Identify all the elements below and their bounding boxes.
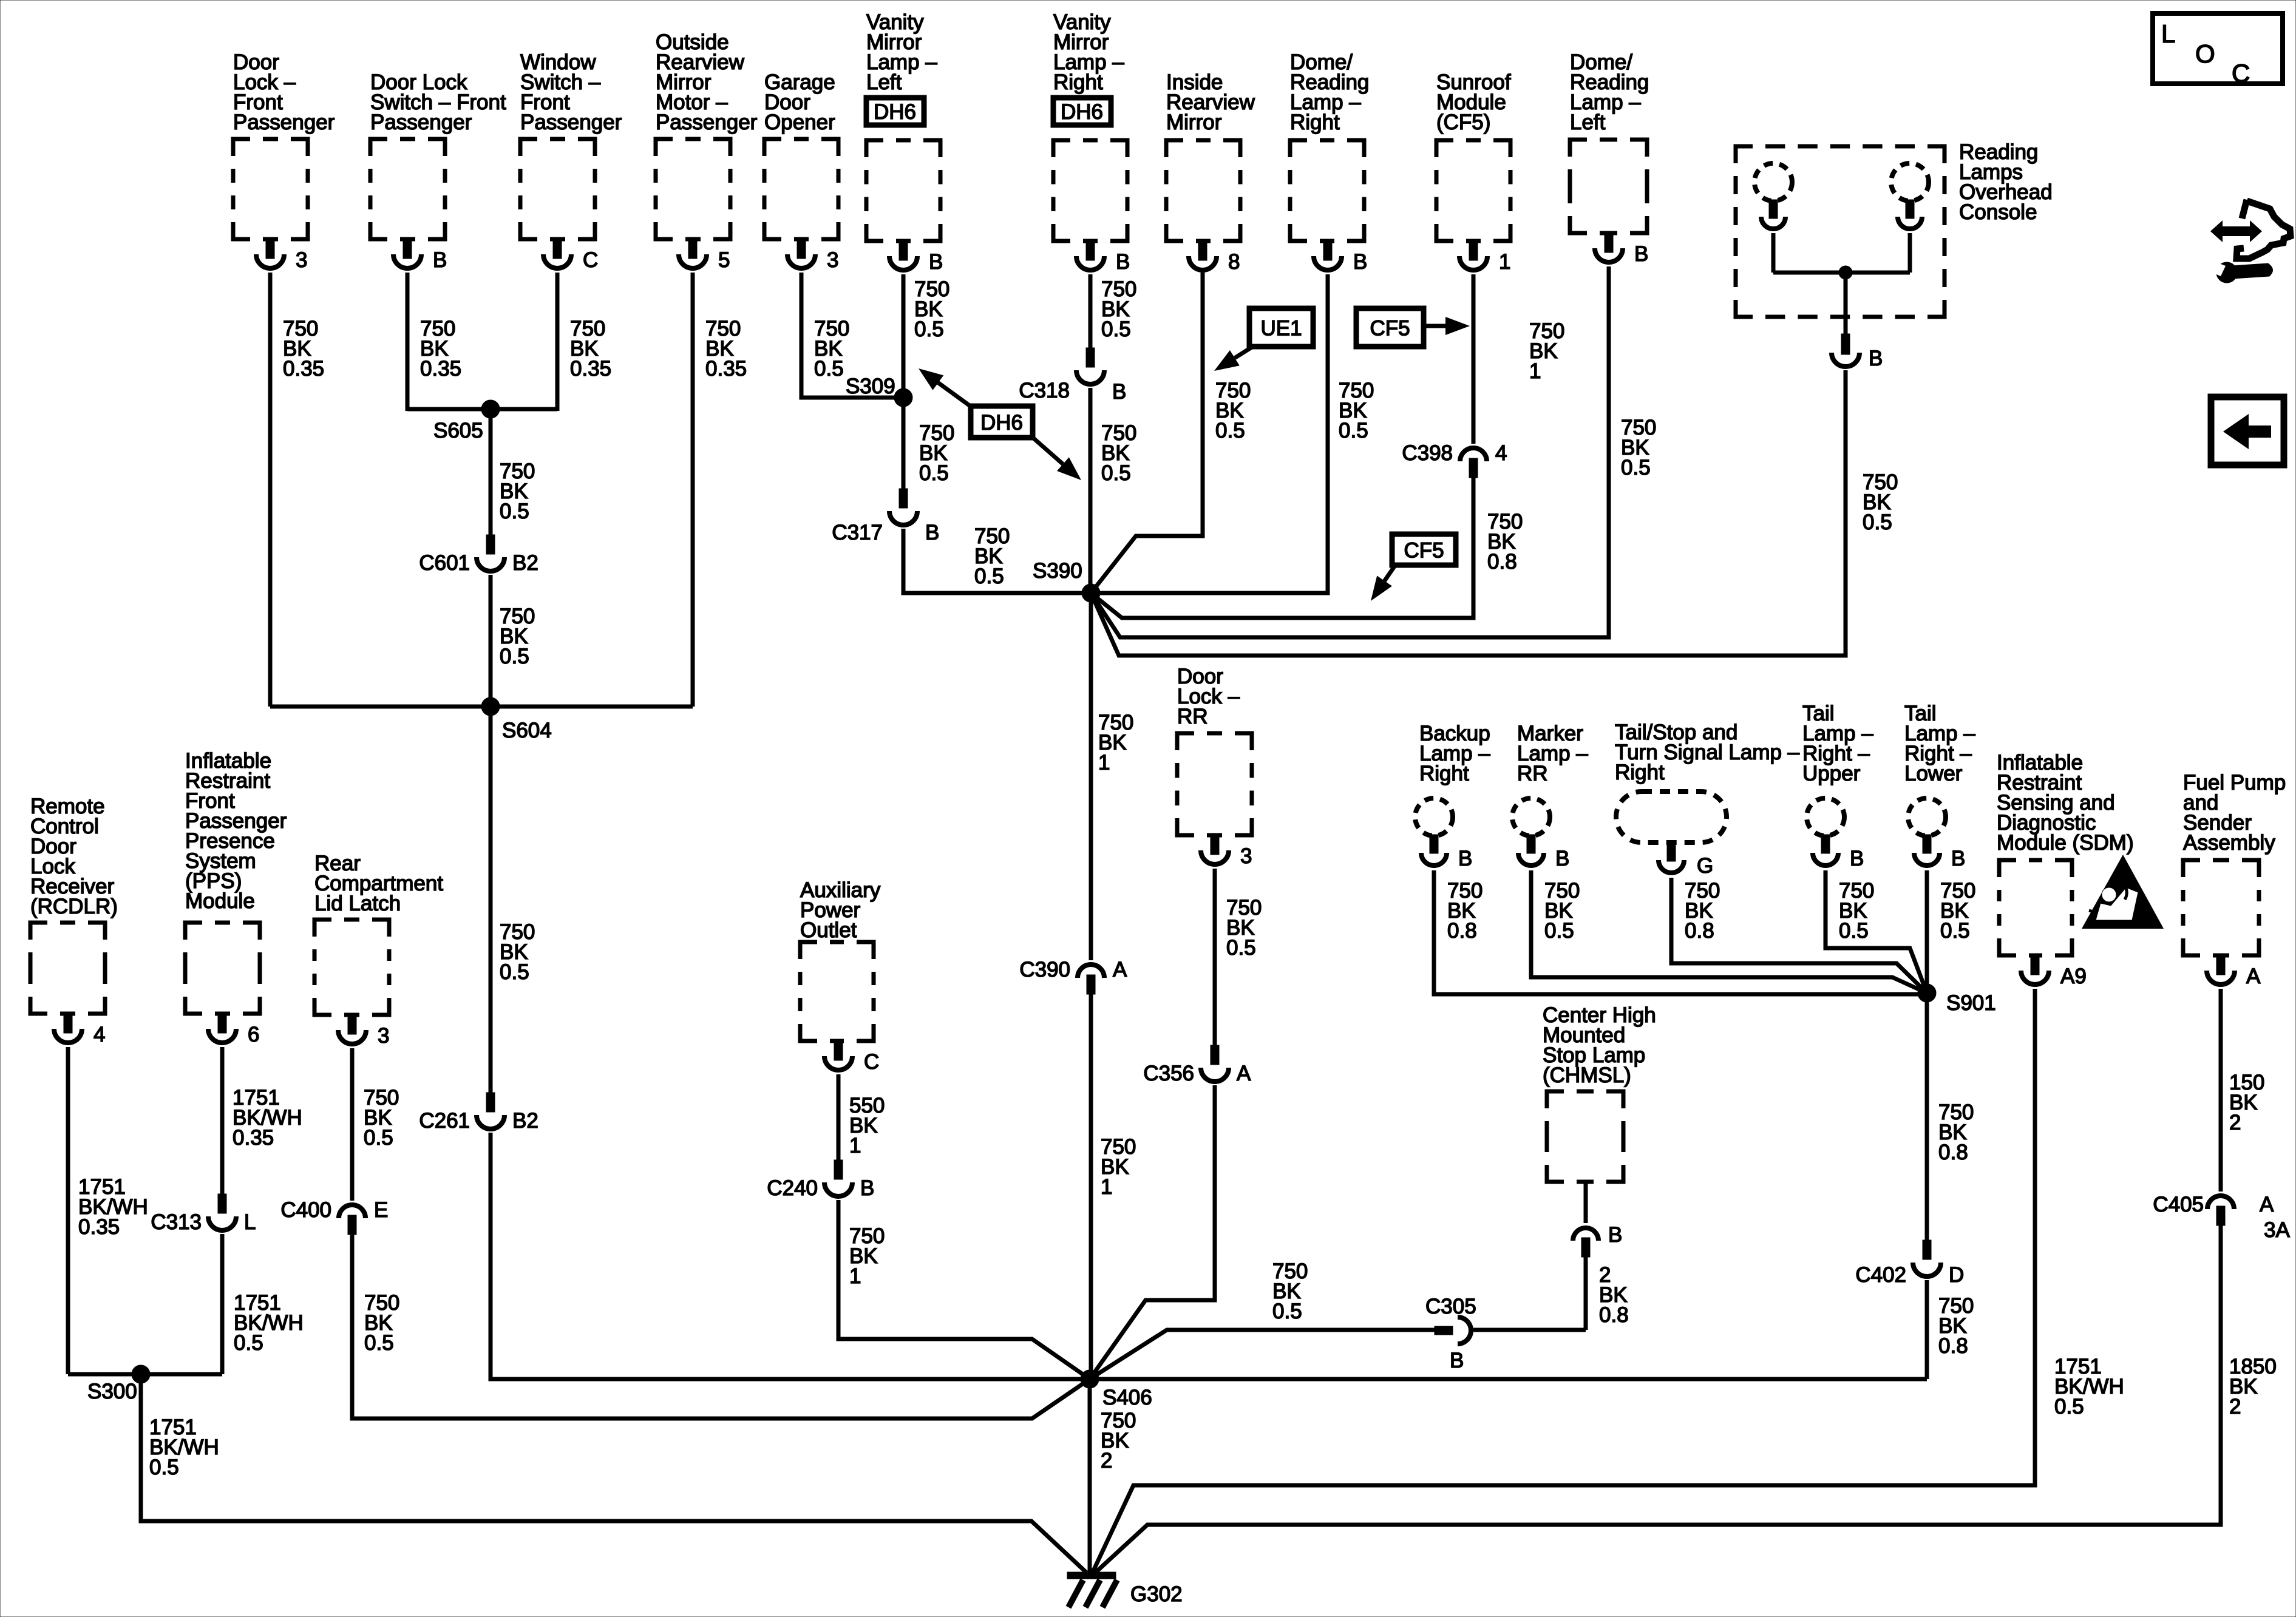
wire: Fuel Pump pin A down to C405 — [2219, 989, 2223, 1192]
svg-text:0.8: 0.8 — [1938, 1141, 1968, 1164]
wire: Vanity Mirror Lamp Right pin B down to C318 — [1089, 274, 1093, 349]
pin 6: PPS Module — [208, 1012, 259, 1046]
wire: Dome/Reading Lamp Left pin B down to S390 fan line B — [1091, 266, 1609, 637]
component box: Inflatable Restraint Sensing and Diagnostic Module (SDM) — [1997, 751, 2134, 955]
component box: Center High Mounted Stop Lamp (CHMSL) — [1543, 1003, 1656, 1182]
ground symbol G302 — [1067, 1572, 1183, 1607]
pin 3: Rear Compartment Lid Latch — [338, 1014, 389, 1048]
svg-text:1: 1 — [849, 1134, 861, 1158]
component box: Vanity Mirror Lamp - Right — [1053, 10, 1127, 241]
svg-text:A: A — [2246, 964, 2261, 988]
wire: Door Lock FP pin 3 down to S604 bus — [268, 273, 273, 707]
svg-text:0.8: 0.8 — [1599, 1303, 1629, 1327]
wire: PPS pin 6 down to C313 — [220, 1047, 225, 1195]
svg-text:2: 2 — [2229, 1395, 2241, 1419]
callout arrow CF5 to dome right wire — [1371, 566, 1394, 601]
svg-text:0.35: 0.35 — [78, 1215, 120, 1239]
svg-text:UE1: UE1 — [1260, 317, 1302, 341]
component box: Rear Compartment Lid Latch — [314, 852, 443, 1015]
svg-text:B: B — [1458, 847, 1472, 870]
callout box DH6 (Vanity Mirror Lamp - Right) — [1053, 98, 1111, 125]
svg-text:Left: Left — [1570, 110, 1606, 134]
svg-text:0.5: 0.5 — [500, 645, 529, 668]
svg-text:3: 3 — [378, 1024, 389, 1048]
svg-text:A: A — [1237, 1062, 1251, 1085]
svg-text:0.35: 0.35 — [705, 357, 747, 381]
wire: console left lamp to internal bus — [1771, 233, 1776, 273]
svg-text:3A: 3A — [2264, 1218, 2290, 1242]
svg-text:B: B — [1116, 250, 1130, 274]
wire: Aux Power Outlet pin C down to C240 — [837, 1074, 841, 1161]
wire: Dome/Reading Lamp Right pin B down and left to S390 — [1091, 274, 1328, 593]
svg-text:0.5: 0.5 — [1272, 1300, 1302, 1323]
connector C398 pin 4 — [1402, 441, 1507, 478]
pin 3: Door Lock - RR — [1201, 834, 1252, 868]
svg-text:5: 5 — [718, 248, 730, 272]
svg-text:DH6: DH6 — [1061, 100, 1103, 124]
svg-text:3: 3 — [827, 248, 838, 272]
svg-text:L: L — [2161, 19, 2175, 48]
wire: Lid Latch pin 3 down to C400 — [350, 1048, 355, 1201]
pin B: Tail Lamp - Right - Lower — [1914, 835, 1965, 870]
svg-text:0.5: 0.5 — [919, 461, 949, 485]
svg-text:Passenger: Passenger — [520, 110, 622, 134]
svg-text:A: A — [2260, 1193, 2274, 1216]
wire: C390 down to S406 — [1089, 994, 1093, 1379]
svg-text:(CF5): (CF5) — [1436, 110, 1490, 134]
svg-text:C402: C402 — [1855, 1263, 1906, 1287]
component box: Remote Control Door Lock Receiver (RCDLR) — [30, 795, 118, 1014]
junction S390 — [1082, 584, 1100, 602]
svg-text:0.5: 0.5 — [2054, 1395, 2084, 1419]
svg-text:0.5: 0.5 — [1226, 936, 1256, 960]
component box: Door Lock Switch - Front Passenger — [370, 70, 506, 239]
svg-text:8: 8 — [1228, 250, 1240, 274]
connector C400 pin E — [280, 1198, 388, 1235]
svg-text:B2: B2 — [512, 1109, 538, 1133]
svg-text:0.5: 0.5 — [364, 1126, 393, 1150]
component box: Door Lock - RR — [1177, 665, 1252, 835]
svg-text:(CHMSL): (CHMSL) — [1543, 1063, 1631, 1087]
wire: S406 down to G302 — [1088, 1379, 1092, 1573]
connector C402 pin D — [1855, 1240, 1964, 1287]
wire: Tail Lamp Lower down to S901 — [1925, 870, 1929, 993]
component: Marker Lamp - RR — [1512, 722, 1588, 836]
svg-text:1: 1 — [1529, 359, 1541, 383]
svg-text:1: 1 — [1101, 1175, 1112, 1199]
wire: Garage Door Opener pin 3 down and right to S309 — [801, 273, 903, 398]
svg-text:C390: C390 — [1019, 958, 1070, 981]
wire: S300 bus — [68, 1372, 222, 1377]
component: Tail Lamp - Right - Upper — [1802, 702, 1873, 836]
lamp pin right (console) — [1898, 200, 1922, 229]
svg-text:Opener: Opener — [764, 110, 835, 134]
pin C: Auxiliary Power Outlet — [824, 1040, 879, 1074]
svg-text:Passenger: Passenger — [370, 110, 472, 134]
svg-text:B: B — [1850, 847, 1864, 870]
svg-text:1: 1 — [849, 1264, 861, 1288]
connector C405 pin A / 3A — [2153, 1193, 2290, 1242]
svg-text:1: 1 — [1098, 751, 1110, 775]
svg-text:0.5: 0.5 — [814, 357, 844, 381]
junction S300 — [132, 1365, 150, 1383]
svg-text:C313: C313 — [151, 1210, 202, 1234]
svg-text:C398: C398 — [1402, 441, 1453, 465]
wire: C400 down, right, diagonal to S406 — [352, 1235, 1090, 1419]
svg-text:0.35: 0.35 — [420, 357, 461, 381]
svg-text:0.5: 0.5 — [914, 317, 944, 341]
svg-text:B: B — [929, 250, 943, 274]
svg-text:0.5: 0.5 — [364, 1331, 394, 1355]
wire: C318 down to S390 — [1089, 388, 1093, 593]
svg-text:C400: C400 — [280, 1198, 331, 1222]
component box: Window Switch - Front Passenger — [520, 50, 622, 239]
svg-text:Right: Right — [1053, 70, 1103, 94]
wire: CHMSL to pin B connector — [1584, 1182, 1588, 1223]
pin A: Fuel Pump and Sender Assembly — [2207, 954, 2261, 988]
pin B: Marker Lamp - RR — [1518, 835, 1569, 870]
svg-text:0.5: 0.5 — [1940, 919, 1970, 943]
component box: Inside Rearview Mirror — [1166, 70, 1255, 241]
wire: SDM pin A9 down, left, diagonal to G302 — [1092, 989, 2035, 1573]
svg-text:0.5: 0.5 — [1863, 510, 1892, 534]
callout box UE1 — [1249, 308, 1313, 347]
wire: Reading Lamps Overhead Console pin B down to S390 fan line C — [1091, 370, 1846, 656]
svg-text:Lid Latch: Lid Latch — [314, 892, 401, 915]
component box: Reading Lamps Overhead Console — [1736, 140, 2053, 317]
lamp circle left (Reading Lamps Overhead Console) — [1754, 163, 1792, 201]
component box: Door Lock - Front Passenger — [233, 50, 335, 239]
svg-text:B: B — [1634, 242, 1648, 266]
svg-text:0.5: 0.5 — [500, 960, 529, 984]
component box: Vanity Mirror Lamp - Left — [866, 10, 940, 241]
wire: Vanity Mirror Lamp Left pin B down to C317 — [902, 274, 906, 489]
wire: C313 down to S300 bus — [220, 1234, 225, 1374]
svg-text:4: 4 — [93, 1023, 105, 1046]
component: Backup Lamp - Right — [1415, 722, 1490, 836]
svg-text:G302: G302 — [1130, 1582, 1183, 1606]
svg-text:Module (SDM): Module (SDM) — [1997, 831, 2134, 855]
pin 8: Inside Rearview Mirror — [1189, 240, 1240, 274]
connector C240 pin B — [767, 1160, 874, 1200]
component box: Outside Rearview Mirror Motor - Passenger — [656, 30, 758, 239]
wire: C601 down to S604 — [489, 575, 493, 707]
connector C356 pin A — [1143, 1045, 1251, 1085]
wire: RCDLR pin 4 down to S300 bus — [66, 1047, 70, 1374]
svg-text:0.35: 0.35 — [283, 357, 324, 381]
junction: console internal — [1839, 266, 1852, 279]
pin 5: Outside Rearview Mirror Motor - Passenger — [679, 238, 730, 272]
wire: ORVM pin 5 down to S604 bus — [691, 273, 695, 707]
junction S406 — [1081, 1370, 1099, 1388]
svg-text:B: B — [1555, 847, 1569, 870]
junction S605 — [481, 400, 500, 418]
connector C305 pin B — [1425, 1295, 1476, 1372]
svg-text:3: 3 — [296, 248, 307, 272]
wire: S406 diagonal up-right to C305 horizontal — [1090, 1330, 1436, 1379]
wire: Tail/Stop Lamp down, right, diagonal to S901 — [1671, 878, 1927, 993]
junction S309 — [894, 388, 912, 407]
wire: C405 down, left, diagonal to G302 — [1095, 1225, 2221, 1573]
svg-text:0.8: 0.8 — [1685, 919, 1714, 943]
svg-text:1: 1 — [1499, 250, 1510, 274]
svg-text:0.5: 0.5 — [234, 1331, 263, 1355]
svg-text:Passenger: Passenger — [233, 110, 335, 134]
wire: S406 main bus — [491, 1377, 1927, 1381]
svg-text:0.5: 0.5 — [1339, 419, 1368, 442]
wire: console internal bus — [1773, 271, 1910, 275]
svg-text:B: B — [1951, 847, 1965, 870]
callout arrow CF5 to sunroof wire — [1426, 317, 1470, 335]
svg-text:DH6: DH6 — [980, 411, 1023, 435]
svg-text:B2: B2 — [512, 551, 538, 575]
component box: Dome/Reading Lamp - Left — [1570, 50, 1649, 233]
component box: Dome/Reading Lamp - Right — [1290, 50, 1369, 241]
pin B connector at CHMSL — [1573, 1223, 1622, 1257]
pin B: Vanity Mirror Lamp - Right — [1076, 240, 1130, 274]
callout arrow DH6 to vanity left wire — [919, 368, 972, 407]
pin G: Tail/Stop and Turn Signal Lamp - Right — [1659, 841, 1713, 878]
svg-text:Upper: Upper — [1802, 762, 1861, 785]
wire: C240 down, right, diagonal to S406 — [838, 1200, 1090, 1379]
svg-text:S300: S300 — [87, 1380, 137, 1403]
svg-text:Right: Right — [1290, 110, 1340, 134]
wire: Backup Lamp down, right to S901 — [1434, 870, 1927, 994]
svg-text:Right: Right — [1615, 761, 1665, 784]
connector C261 pin B2 — [419, 1093, 538, 1133]
connector C390 pin A — [1019, 958, 1127, 994]
svg-text:2: 2 — [2229, 1111, 2241, 1134]
callout box CF5 (lower) — [1392, 534, 1456, 565]
pin 3: Door Lock - Front Passenger — [256, 238, 307, 272]
pin B: Tail Lamp - Right - Upper — [1813, 835, 1864, 870]
svg-text:0.8: 0.8 — [1447, 919, 1477, 943]
svg-text:C601: C601 — [419, 551, 470, 575]
component box: Fuel Pump and Sender Assembly — [2183, 771, 2286, 955]
wire: Marker Lamp down, right, diagonal to S901 — [1531, 870, 1927, 993]
connector C318 pin B — [1019, 348, 1126, 404]
svg-text:C318: C318 — [1019, 379, 1070, 402]
wire: C305 right to CHMSL wire — [1473, 1328, 1586, 1332]
pin B: Door Lock Switch - Front Passenger — [393, 238, 447, 272]
svg-text:Passenger: Passenger — [656, 110, 758, 134]
wire: console internal down to pin — [1844, 273, 1848, 335]
wire: S604 down to C261 — [489, 707, 493, 1093]
svg-text:C: C — [583, 248, 598, 272]
pin A9: SDM — [2021, 954, 2087, 988]
airbag warning triangle icon — [2082, 855, 2164, 929]
svg-text:S406: S406 — [1102, 1386, 1152, 1409]
callout box CF5 (top) — [1356, 308, 1424, 347]
svg-text:S604: S604 — [502, 719, 552, 742]
svg-text:S309: S309 — [846, 375, 895, 398]
svg-text:0.5: 0.5 — [1544, 919, 1574, 943]
pin B: Backup Lamp - Right — [1421, 835, 1472, 870]
svg-text:S605: S605 — [433, 419, 483, 442]
wire: S604 bus — [270, 705, 693, 709]
svg-text:2: 2 — [1101, 1449, 1112, 1473]
component box: Auxiliary Power Outlet — [800, 878, 881, 1041]
component: Tail/Stop and Turn Signal Lamp - Right — [1615, 720, 1800, 842]
svg-text:B: B — [925, 521, 939, 544]
svg-text:A9: A9 — [2060, 964, 2087, 988]
svg-text:L: L — [244, 1210, 256, 1234]
svg-text:CF5: CF5 — [1404, 539, 1444, 563]
svg-text:S390: S390 — [1033, 559, 1082, 583]
svg-text:0.5: 0.5 — [1101, 317, 1131, 341]
pin 1: Sunroof Module (CF5) — [1459, 240, 1510, 274]
svg-text:S901: S901 — [1946, 991, 1996, 1015]
svg-text:0.5: 0.5 — [974, 564, 1004, 588]
svg-text:0.5: 0.5 — [1215, 419, 1245, 442]
svg-text:C: C — [864, 1050, 879, 1074]
wire: Tail Lamp Upper down, right, diagonal to S901 — [1826, 870, 1927, 993]
svg-text:0.5: 0.5 — [500, 500, 529, 523]
wire: console right lamp to internal bus — [1908, 233, 1912, 273]
component box: Inflatable Restraint Front Passenger Presence System (PPS) Module — [185, 749, 287, 1014]
svg-text:C405: C405 — [2153, 1193, 2204, 1216]
wire: S901 down to C402 — [1925, 993, 1929, 1240]
svg-text:Assembly: Assembly — [2183, 831, 2275, 855]
svg-text:B: B — [433, 248, 447, 272]
callout box DH6 (Vanity Mirror Lamp - Left) — [866, 98, 924, 125]
wire: C356 down, left, diagonal to S406 — [1090, 1085, 1215, 1379]
svg-text:C305: C305 — [1425, 1295, 1476, 1318]
svg-text:Right: Right — [1419, 762, 1469, 785]
svg-text:B: B — [1608, 1223, 1622, 1247]
callout box DH6 — [971, 406, 1033, 438]
svg-text:CF5: CF5 — [1370, 317, 1410, 341]
svg-text:A: A — [1113, 958, 1127, 981]
svg-text:B: B — [860, 1176, 874, 1200]
svg-text:G: G — [1697, 854, 1713, 878]
wire: C402 down to S406 bus — [1925, 1280, 1929, 1379]
wire: Inside Rearview Mirror pin 8 down, jog to S390 — [1091, 273, 1203, 593]
svg-text:Lower: Lower — [1904, 762, 1963, 785]
pin B: Dome/Reading Lamp - Right — [1314, 240, 1367, 274]
svg-text:C240: C240 — [767, 1176, 818, 1200]
wire: Door Lock Switch pin B down to S605 bus — [406, 273, 410, 411]
svg-text:C317: C317 — [832, 521, 883, 544]
svg-text:O: O — [2195, 39, 2215, 68]
svg-text:4: 4 — [1495, 441, 1507, 465]
svg-text:0.8: 0.8 — [1487, 550, 1517, 574]
svg-text:Mirror: Mirror — [1166, 110, 1222, 134]
svg-text:0.5: 0.5 — [149, 1456, 179, 1479]
svg-text:0.5: 0.5 — [1839, 919, 1869, 943]
svg-text:6: 6 — [248, 1023, 259, 1046]
svg-text:Outlet: Outlet — [800, 918, 857, 942]
pin B: Reading Lamps Overhead Console — [1832, 334, 1883, 370]
svg-text:(RCDLR): (RCDLR) — [30, 895, 118, 918]
svg-text:Left: Left — [866, 70, 902, 94]
wire: S605 down to C601 — [489, 409, 493, 536]
pin B: Vanity Mirror Lamp - Left — [889, 240, 943, 274]
wire: Window Switch pin C down to S605 bus — [555, 273, 560, 411]
svg-text:D: D — [1949, 1263, 1964, 1287]
wire: S300 down, right, diagonal to G302 — [141, 1374, 1087, 1573]
svg-text:DH6: DH6 — [874, 100, 916, 124]
component box: Sunroof Module (CF5) — [1436, 70, 1511, 241]
pin 4: RCDLR — [54, 1012, 105, 1046]
svg-text:RR: RR — [1177, 705, 1208, 728]
svg-text:RR: RR — [1517, 762, 1548, 785]
wire: C261 down then right to S406 — [491, 1133, 1090, 1379]
pin 3: Garage Door Opener — [787, 238, 838, 272]
svg-text:C: C — [2232, 59, 2250, 87]
junction S901 — [1918, 984, 1936, 1002]
svg-text:B: B — [1112, 380, 1126, 404]
wire: S390 down to C390 — [1089, 593, 1093, 960]
svg-text:B: B — [1353, 250, 1367, 274]
wire: C398 down then left to S390 fan line A — [1091, 478, 1473, 618]
svg-text:Console: Console — [1959, 200, 2037, 224]
svg-text:0.5: 0.5 — [1621, 456, 1651, 480]
connector C317 pin B — [832, 489, 939, 544]
svg-text:B: B — [1869, 347, 1883, 370]
lamp circle right (Reading Lamps Overhead Console) — [1891, 163, 1929, 201]
LOC legend box — [2153, 13, 2283, 87]
svg-text:0.35: 0.35 — [570, 357, 611, 381]
svg-text:Module: Module — [185, 889, 255, 913]
connector C313 pin L — [151, 1194, 256, 1234]
callout arrow UE1 to IRVM wire — [1214, 347, 1252, 371]
svg-text:0.5: 0.5 — [1101, 461, 1131, 485]
component: Tail Lamp - Right - Lower — [1904, 702, 1975, 836]
wire: Sunroof Module pin 1 down to C398 — [1472, 274, 1476, 444]
callout arrow DH6 to vanity right wire — [1031, 436, 1081, 480]
pin C: Window Switch - Front Passenger — [543, 238, 598, 272]
pin B: Dome/Reading Lamp - Left — [1595, 232, 1648, 266]
junction S604 — [481, 697, 500, 716]
svg-text:B: B — [1450, 1349, 1464, 1372]
svg-text:3: 3 — [1240, 844, 1252, 868]
wire: Door Lock RR pin 3 down to C356 — [1213, 869, 1217, 1046]
svg-text:C261: C261 — [419, 1109, 470, 1133]
component box: Garage Door Opener — [764, 70, 838, 239]
svg-text:E: E — [374, 1198, 388, 1222]
service icon: double arrow, part outline and wrench — [2209, 200, 2291, 283]
navigation icon: left arrow in box — [2211, 397, 2284, 465]
svg-text:0.35: 0.35 — [233, 1126, 274, 1150]
svg-text:C356: C356 — [1143, 1062, 1194, 1085]
wire: CHMSL pin down to C305 horizontal — [1584, 1257, 1588, 1330]
wire: S605 bus — [407, 407, 557, 412]
wire: C317 down then right to S390 — [903, 529, 1091, 593]
svg-text:0.8: 0.8 — [1938, 1334, 1968, 1358]
lamp pin left (console) — [1761, 200, 1785, 229]
connector C601 pin B2 — [419, 535, 538, 575]
